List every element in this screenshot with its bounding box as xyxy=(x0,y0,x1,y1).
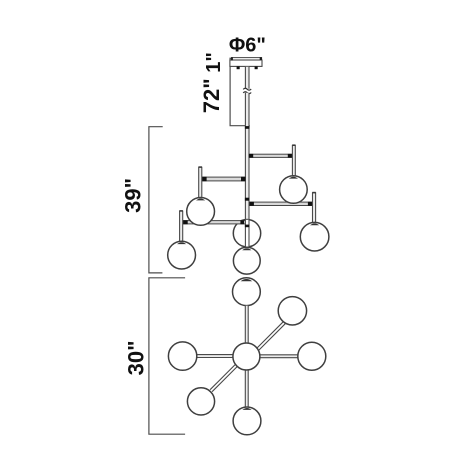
fitter wedge on sputnik bottom globe xyxy=(242,408,251,410)
sputnik rod left xyxy=(197,355,233,358)
canopy plate end mark left xyxy=(231,57,233,60)
arm left 2 connector at rod xyxy=(183,220,188,224)
rod of right arm 2 globe xyxy=(312,192,316,223)
sputnik rod upper-right diagonal xyxy=(257,322,285,350)
canopy foot right xyxy=(255,66,258,69)
arm right 2 connector at stem xyxy=(250,202,254,206)
globe right 2 xyxy=(300,222,329,251)
arm right 1 connector at stem xyxy=(249,154,253,158)
hanging rod upper segment (above break) xyxy=(245,67,249,89)
stem junction block above arm right 2 xyxy=(245,198,249,201)
sputnik globe bottom xyxy=(233,407,261,435)
arm left 1 xyxy=(202,177,246,181)
fitter wedge on globe B xyxy=(242,248,251,250)
fitter wedge on globe right 2 xyxy=(310,223,319,225)
arm left 1 connector at stem xyxy=(241,177,245,181)
sputnik globe right xyxy=(298,342,326,370)
arm right 2 xyxy=(249,202,312,205)
fitter wedge on globe right 1 xyxy=(289,177,298,179)
stem block inside globe A xyxy=(245,225,249,228)
central stem (below break, passes through globe A) xyxy=(245,93,249,247)
globe left 2 xyxy=(168,241,196,269)
svg-text:1": 1" xyxy=(203,52,225,73)
arm left 1 connector at rod xyxy=(202,177,207,181)
rod of right arm 1 globe xyxy=(292,144,295,176)
sputnik rod up (hub to globe C) xyxy=(245,306,248,343)
stem segment over globe A xyxy=(245,220,249,247)
dimension line 72"/1" vertical xyxy=(229,58,231,126)
dimension tick bottom (rod end) xyxy=(230,125,250,127)
dimension tick top (canopy top) xyxy=(230,57,236,59)
dimension bracket 39" xyxy=(149,127,163,273)
sputnik rod down (hub to bottom globe) xyxy=(245,370,248,407)
dimension bracket 30" xyxy=(149,278,185,434)
sputnik globe left xyxy=(168,342,196,370)
sputnik globe lower-left xyxy=(187,388,214,415)
arm right 2 connector at rod xyxy=(308,202,313,206)
globe A (on stem) xyxy=(233,220,260,247)
sputnik globe upper-right xyxy=(278,297,306,325)
svg-text:39": 39" xyxy=(120,178,145,213)
arm left 2 (over globe A) xyxy=(183,221,245,224)
stem junction block top xyxy=(245,126,250,129)
sputnik hub globe xyxy=(233,343,260,370)
svg-text:72": 72" xyxy=(199,78,224,113)
canopy plate end mark right xyxy=(260,57,262,60)
svg-text:Φ6": Φ6" xyxy=(229,35,266,57)
arm left 2 connector at stem xyxy=(240,220,244,224)
canopy foot left xyxy=(237,66,240,69)
rod break symbol xyxy=(243,88,251,93)
globe left 1 xyxy=(187,198,215,226)
fitter wedge on globe left 2 xyxy=(177,242,186,244)
canopy top plate xyxy=(232,58,262,60)
fitter wedge on globe left 1 xyxy=(196,199,205,201)
rod of left arm 2 globe xyxy=(179,210,183,241)
sputnik rod right xyxy=(260,355,298,358)
fitter cap on globe C top xyxy=(241,279,253,281)
arm right 1 xyxy=(249,154,292,157)
rod of left arm 1 globe xyxy=(199,166,203,197)
globe C (sputnik top) xyxy=(233,278,261,306)
svg-text:30": 30" xyxy=(123,340,148,375)
globe B (stem bottom) xyxy=(233,247,260,274)
sputnik rod lower-left diagonal xyxy=(210,365,237,392)
canopy body xyxy=(230,60,262,66)
arm right 1 connector at rod xyxy=(288,154,293,158)
globe right 1 xyxy=(280,176,308,204)
